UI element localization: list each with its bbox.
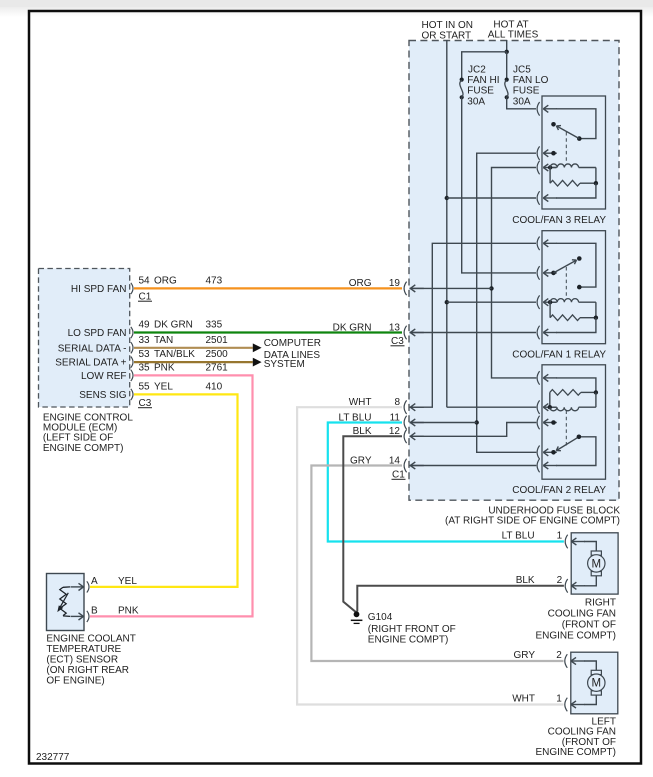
wire org net vertical (relay3 coil / relay2 resistor) — [492, 168, 537, 378]
svg-text:JC5: JC5 — [513, 65, 531, 76]
right fan pin1 internal wire — [584, 542, 596, 552]
relay1 switch open contact node — [577, 256, 582, 261]
svg-text:SERIAL DATA -: SERIAL DATA - — [58, 343, 127, 354]
label G104 — [368, 612, 456, 646]
relay3 switch blade — [556, 126, 579, 139]
wire label GRY 2 — [514, 650, 563, 661]
ECM pin 54 (HI SPD FAN) — [71, 275, 150, 295]
ECM connector C3 label — [138, 398, 152, 409]
relay1 pin 1 terminal — [537, 237, 557, 251]
wire label TAN/BLK 2500 — [154, 349, 228, 360]
svg-text:473: 473 — [206, 275, 223, 286]
relay2 coil left node — [548, 405, 552, 409]
wire org terminal19 internal — [410, 287, 492, 289]
ECM pin 35 (LOW REF) — [81, 362, 150, 382]
relay1 pin2 wire to pivot — [554, 272, 557, 274]
label COMPUTER DATA LINES SYSTEM — [264, 338, 321, 370]
connector terminal 8 (WHT) — [349, 397, 424, 414]
motor RIGHT COOLING FAN box — [571, 533, 618, 594]
ECT pin A lead — [63, 583, 84, 590]
wire label LT BLU 1 — [502, 531, 563, 542]
relay2 pin 4 terminal — [537, 446, 557, 460]
ECM pin 49 (LO SPD FAN) — [68, 320, 150, 340]
svg-text:M: M — [592, 678, 602, 690]
wire lt blu terminal11 internal — [410, 422, 477, 424]
relay U1 COOL/FAN 1 RELAY box — [542, 231, 606, 344]
svg-text:410: 410 — [206, 381, 223, 392]
right fan pin 1 terminal — [565, 535, 585, 549]
relay U3 COOL/FAN 3 RELAY box — [542, 96, 606, 209]
svg-text:(ON RIGHT REAR: (ON RIGHT REAR — [46, 665, 129, 676]
svg-text:ALL TIMES: ALL TIMES — [488, 30, 539, 41]
relay1 pin3 wire to coil — [550, 301, 556, 303]
left fan pin 1 terminal — [565, 698, 585, 712]
wire TAN circuit 2501 — [134, 347, 253, 349]
wire label PNK — [118, 605, 139, 616]
relay3 pin 2 terminal — [537, 146, 557, 160]
connector terminal 19 (ORG) — [349, 278, 424, 295]
wire label DK GRN 335 — [154, 320, 223, 331]
relay2 label COOL/FAN 2 RELAY — [512, 485, 606, 496]
wire GRY to left cooling fan — [311, 466, 563, 662]
svg-text:ENGINE COMPT): ENGINE COMPT) — [43, 443, 124, 454]
motor M left fan — [588, 670, 605, 695]
svg-text:TAN/BLK: TAN/BLK — [154, 349, 195, 360]
wire label YEL — [118, 576, 137, 587]
relay3 pin2 contact stub — [551, 151, 556, 156]
svg-text:OF ENGINE): OF ENGINE) — [46, 676, 104, 687]
underhood fuse block (dashed box) — [409, 41, 619, 501]
relay1 coil/resistor right node — [594, 316, 598, 320]
wire WHT to left cooling fan — [297, 407, 563, 704]
wire hot to cool/fan1 relay pin3 — [447, 301, 536, 303]
wire JC5 to cool/fan3 relay pin1 — [507, 97, 536, 109]
label HOT AT ALL TIMES — [488, 19, 539, 40]
left fan pin2 internal wire — [584, 661, 596, 670]
module ECM (dashed box) — [39, 269, 130, 408]
relay1 switch blade — [554, 260, 577, 273]
fuse JC2 FAN HI FUSE 30A — [460, 65, 500, 108]
svg-text:2501: 2501 — [206, 335, 229, 346]
connector terminal 12 (BLK) — [353, 426, 424, 443]
wire label ORG 473 — [154, 275, 223, 286]
svg-text:OR START: OR START — [422, 30, 472, 41]
relay3 pin 4 terminal — [537, 191, 557, 205]
svg-text:M: M — [592, 558, 602, 570]
wire blk terminal12 internal to relay2 pin3 — [410, 423, 537, 437]
svg-text:G104: G104 — [368, 612, 393, 623]
label UNDERHOOD FUSE BLOCK — [445, 506, 620, 527]
ECT caption — [46, 634, 135, 687]
svg-text:SYSTEM: SYSTEM — [264, 359, 305, 370]
svg-text:TEMPERATURE: TEMPERATURE — [46, 644, 121, 655]
relay1 label COOL/FAN 1 RELAY — [512, 350, 606, 361]
relay3 label COOL/FAN 3 RELAY — [512, 215, 606, 226]
svg-text:COOLING FAN: COOLING FAN — [548, 609, 616, 620]
svg-text:335: 335 — [206, 320, 223, 331]
svg-text:FUSE: FUSE — [467, 86, 494, 97]
wire DK GRN circuit 335 — [134, 331, 402, 333]
relay2 coil — [550, 392, 596, 410]
relay2 pin5 wire to contact — [556, 437, 596, 466]
wire label TAN 2501 — [154, 335, 228, 346]
svg-text:232777: 232777 — [36, 752, 70, 763]
node fuse feed junction — [505, 50, 509, 54]
svg-text:B: B — [91, 605, 98, 616]
relay1 pin 3 terminal — [537, 295, 557, 309]
relay2 pin 2 terminal — [537, 400, 557, 414]
svg-text:WHT: WHT — [512, 694, 535, 705]
ECT pin B lead — [63, 613, 84, 620]
connector label C1 at fuse block — [392, 470, 406, 481]
svg-text:2500: 2500 — [206, 349, 229, 360]
relay1 pin1 wire to lower contact — [556, 243, 596, 287]
relay2 resistor — [550, 390, 596, 408]
right fan caption — [535, 598, 616, 642]
ECM connector C1 label — [138, 292, 152, 303]
node lt blu net junction — [475, 420, 479, 424]
wire BLK fan to ground — [357, 586, 564, 612]
svg-text:RIGHT: RIGHT — [585, 598, 616, 609]
wire lt blu net vertical (relay3 pin2 / relay2 pin4) — [477, 153, 537, 452]
svg-text:HI SPD FAN: HI SPD FAN — [71, 284, 127, 295]
svg-text:TAN: TAN — [154, 335, 173, 346]
relay3 pin3 wire to coil — [550, 167, 556, 169]
svg-text:2761: 2761 — [206, 362, 229, 373]
svg-text:PNK: PNK — [118, 605, 139, 616]
relay1 pin 2 terminal — [537, 266, 557, 280]
wire hot to cool/fan3 relay pin4 — [447, 197, 536, 199]
svg-text:SERIAL DATA +: SERIAL DATA + — [55, 358, 126, 369]
svg-text:COMPUTER: COMPUTER — [264, 338, 321, 349]
right fan pin 2 terminal — [565, 579, 585, 593]
svg-text:BLK: BLK — [516, 575, 535, 586]
connector terminal 11 (LT BLU) — [339, 412, 424, 429]
relay3 switch pivot node — [577, 136, 582, 141]
ground G104 — [351, 611, 363, 623]
svg-text:LOW REF: LOW REF — [81, 371, 127, 382]
ECT thermistor arrow — [57, 593, 68, 612]
wire label BLK 2 — [516, 575, 563, 586]
relay3 pin1 wire to switch pivot — [556, 109, 596, 139]
svg-text:30A: 30A — [467, 96, 485, 107]
svg-text:1: 1 — [556, 694, 562, 705]
relay2 pin 3 terminal — [537, 416, 557, 430]
relay3 coil-to-switch dashed link — [565, 132, 567, 164]
svg-text:ENGINE COMPT): ENGINE COMPT) — [535, 747, 616, 758]
wire hot elbow to cool/fan2 relay pin2 — [447, 406, 537, 408]
svg-text:53: 53 — [139, 349, 151, 360]
node org net junction — [489, 286, 493, 290]
motor M right fan — [588, 551, 605, 576]
connector terminal 14 (GRY) — [350, 455, 424, 472]
svg-text:49: 49 — [139, 320, 151, 331]
wire hot-at-all-times vertical feed — [506, 40, 508, 52]
label HOT IN ON OR START — [422, 20, 473, 41]
svg-text:PNK: PNK — [154, 362, 175, 373]
svg-text:GRY: GRY — [514, 650, 536, 661]
ECM pin 55 (SENS SIG) — [79, 381, 150, 401]
svg-text:(AT RIGHT SIDE OF ENGINE COMPT: (AT RIGHT SIDE OF ENGINE COMPT) — [445, 516, 620, 527]
relay3 coil left node — [548, 165, 552, 169]
data lines arrow 2 — [253, 358, 262, 367]
relay1 lower contact node — [577, 285, 582, 290]
ECM pin 53 (SERIAL DATA +) — [55, 349, 150, 369]
relay3 coil/resistor right node — [594, 181, 598, 185]
relay3 pin 3 terminal — [537, 161, 557, 175]
svg-text:LT BLU: LT BLU — [502, 531, 535, 542]
wire LT BLU to right cooling fan — [328, 423, 564, 542]
svg-text:35: 35 — [139, 362, 151, 373]
svg-text:SENS SIG: SENS SIG — [79, 390, 126, 401]
relay1 pin 4 terminal — [537, 326, 557, 340]
relay3 pin4 wire — [556, 183, 596, 198]
wire gry terminal14 internal to relay2 pin5 — [410, 465, 537, 467]
left fan caption — [535, 716, 616, 758]
relay3 coil — [550, 164, 596, 183]
wire TAN/BLK circuit 2500 — [134, 361, 253, 363]
svg-text:YEL: YEL — [118, 576, 137, 587]
wire dk grn terminal13 internal to relay1 pin4 — [410, 332, 537, 334]
relay3 switch open contact node — [551, 122, 556, 127]
svg-text:LO SPD FAN: LO SPD FAN — [68, 328, 127, 339]
svg-text:COOL/FAN 3 RELAY: COOL/FAN 3 RELAY — [512, 215, 606, 226]
relay2 switch blade — [556, 437, 579, 451]
wire JC2 to cool/fan1 relay pin2 — [462, 97, 536, 273]
connector label C3 at fuse block — [391, 336, 405, 347]
svg-text:2: 2 — [556, 650, 562, 661]
svg-text:FAN LO: FAN LO — [513, 75, 549, 86]
wire wht terminal8 internal to relay1 pin1 — [410, 243, 537, 407]
svg-text:54: 54 — [139, 275, 151, 286]
svg-text:33: 33 — [139, 335, 151, 346]
svg-text:COOL/FAN 1 RELAY: COOL/FAN 1 RELAY — [512, 350, 606, 361]
svg-text:FAN HI: FAN HI — [467, 75, 499, 86]
svg-text:(ECT) SENSOR: (ECT) SENSOR — [46, 655, 118, 666]
wire hot-in-on vertical feed — [446, 40, 448, 407]
node hot feed to relay3 T4 — [445, 196, 449, 200]
svg-text:DK GRN: DK GRN — [154, 320, 193, 331]
relay U2 COOL/FAN 2 RELAY box — [542, 365, 606, 479]
svg-text:(FRONT OF: (FRONT OF — [562, 620, 616, 631]
relay2 pin2 wire to coil — [550, 406, 556, 408]
ECT thermistor element — [60, 587, 66, 615]
relay2 switch contact node — [577, 435, 582, 440]
svg-text:YEL: YEL — [154, 381, 173, 392]
relay3 resistor — [550, 168, 596, 187]
svg-text:FUSE: FUSE — [513, 86, 540, 97]
svg-text:(RIGHT FRONT OF: (RIGHT FRONT OF — [368, 624, 456, 635]
wire YEL circuit 410 — [90, 394, 238, 587]
relay1 coil left node — [548, 300, 552, 304]
connector terminal 13 (DK GRN) — [333, 322, 424, 339]
relay2 resistor right node — [594, 390, 598, 394]
wire label WHT 1 — [512, 694, 562, 705]
sensor ECT box — [47, 574, 85, 631]
relay2 coil-to-switch dashed link — [565, 411, 567, 447]
svg-text:ENGINE COMPT): ENGINE COMPT) — [535, 631, 616, 642]
svg-text:55: 55 — [139, 381, 151, 392]
left fan pin1 internal wire — [584, 695, 596, 704]
wire JC5 fuse feed — [506, 52, 508, 80]
ECM pin 33 (SERIAL DATA -) — [58, 335, 150, 355]
svg-text:ORG: ORG — [154, 275, 177, 286]
svg-text:ENGINE COOLANT: ENGINE COOLANT — [46, 634, 135, 645]
svg-text:ENGINE COMPT): ENGINE COMPT) — [368, 634, 449, 645]
relay1 resistor — [550, 302, 596, 320]
relay2 switch pivot node — [551, 450, 556, 455]
relay1 coil — [550, 299, 596, 318]
svg-text:2: 2 — [557, 575, 563, 586]
left fan pin 2 terminal — [565, 654, 585, 668]
wire ORG circuit 473 — [134, 287, 402, 289]
relay2 pin 5 terminal — [537, 459, 557, 473]
ECM caption — [43, 413, 133, 454]
relay2 pin4 wire to pivot — [554, 451, 557, 453]
svg-text:JC2: JC2 — [468, 65, 486, 76]
wire BLK from relay to ground — [343, 436, 402, 612]
node hot feed to relay1 T3 — [445, 300, 449, 304]
wire PNK circuit 2761 — [90, 375, 253, 616]
relay1 coil-to-switch dashed link — [565, 267, 567, 299]
relay3 pin 1 terminal — [537, 102, 557, 116]
wire label YEL 410 — [154, 381, 223, 392]
data lines arrow 1 — [253, 343, 262, 352]
svg-text:COOL/FAN 2 RELAY: COOL/FAN 2 RELAY — [512, 485, 606, 496]
wire to JC2 fuse — [462, 52, 507, 80]
relay2 pin3 contact stub — [551, 420, 556, 425]
diagram number 232777 — [36, 752, 70, 763]
svg-text:1: 1 — [557, 531, 563, 542]
wire label PNK 2761 — [154, 362, 228, 373]
relay2 pin1 wire to resistor right — [556, 378, 596, 393]
ECT pin B connector — [87, 605, 98, 622]
svg-text:A: A — [91, 576, 98, 587]
relay1 pin4 wire — [556, 318, 596, 333]
fuse JC5 FAN LO FUSE 30A — [505, 65, 549, 108]
ECT pin A connector — [87, 576, 98, 593]
svg-text:30A: 30A — [513, 96, 531, 107]
relay1 switch pivot node — [551, 271, 556, 276]
relay2 pin 1 terminal — [537, 371, 557, 385]
motor LEFT COOLING FAN box — [571, 652, 618, 714]
right fan pin2 internal wire — [584, 576, 596, 586]
